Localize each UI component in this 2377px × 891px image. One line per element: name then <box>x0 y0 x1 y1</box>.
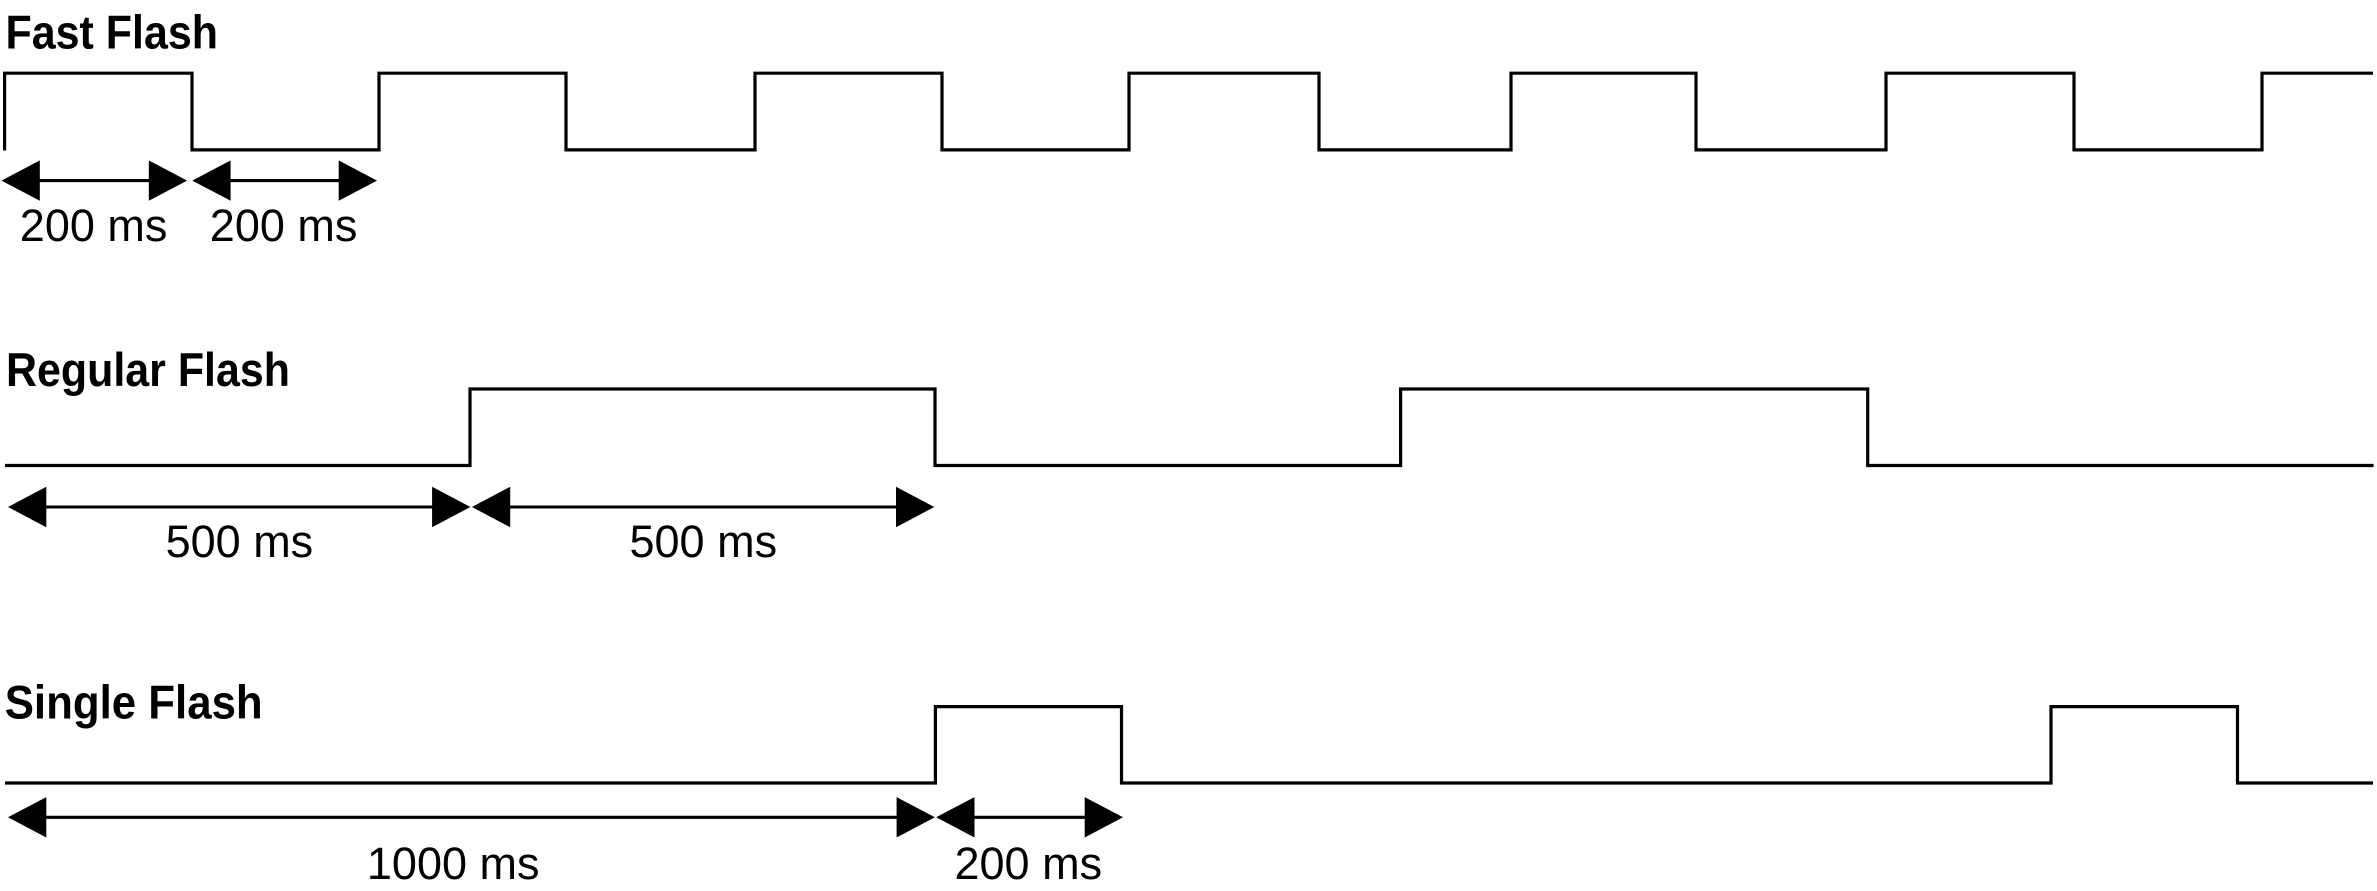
svg-text:200 ms: 200 ms <box>955 838 1103 889</box>
svg-text:500 ms: 500 ms <box>166 516 314 567</box>
arrow 1000ms space <box>8 797 935 837</box>
waveform Regular Flash <box>5 389 2374 466</box>
arrow 200ms mark (first) <box>2 160 188 200</box>
waveform Single Flash <box>5 707 2373 783</box>
svg-text:Regular Flash: Regular Flash <box>6 343 290 396</box>
svg-text:500 ms: 500 ms <box>630 516 778 567</box>
svg-text:1000 ms: 1000 ms <box>367 838 540 889</box>
waveform Fast Flash <box>5 73 2373 150</box>
svg-text:Fast Flash: Fast Flash <box>6 5 219 58</box>
svg-text:200 ms: 200 ms <box>20 200 168 251</box>
arrow 500ms mark (second) <box>472 487 934 527</box>
arrow 200ms mark (third row) <box>936 797 1123 837</box>
arrow 500ms space (first) <box>8 487 470 527</box>
arrow 200ms space (second) <box>192 160 377 200</box>
svg-text:200 ms: 200 ms <box>210 200 358 251</box>
svg-text:Single Flash: Single Flash <box>5 676 263 729</box>
